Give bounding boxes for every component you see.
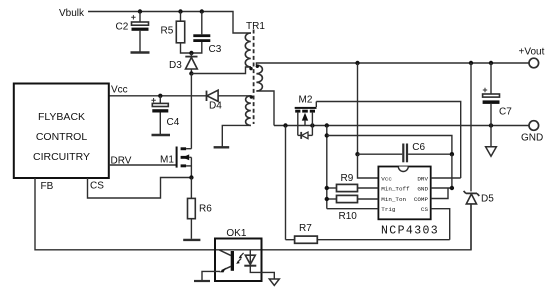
svg-text:Min_Toff: Min_Toff [381, 186, 410, 193]
svg-text:CIRCUITRY: CIRCUITRY [33, 151, 90, 163]
junction R7/drain rail [283, 123, 287, 127]
ground arrow (output GND) [486, 126, 497, 157]
wire drain node to M1 drain [190, 74, 192, 149]
svg-text:Vcc: Vcc [111, 85, 128, 96]
svg-text:R9: R9 [341, 173, 354, 184]
svg-text:Vcc: Vcc [381, 176, 392, 183]
resistor R9 [327, 173, 379, 192]
svg-text:GND: GND [521, 133, 543, 144]
resistor R6 [188, 178, 213, 239]
resistor R10 [327, 195, 379, 222]
svg-text:GND: GND [417, 186, 428, 193]
wire Vbulk rail to TR1 primary top [88, 12, 251, 34]
svg-text:CONTROL: CONTROL [36, 131, 87, 143]
svg-text:R7: R7 [299, 223, 312, 234]
ground (TR1 aux) [214, 146, 230, 148]
svg-text:C4: C4 [167, 117, 180, 128]
ground (C2) [131, 51, 150, 53]
wire M2 gate to DRV [316, 102, 460, 179]
svg-text:C7: C7 [499, 107, 512, 118]
ground (C4) [152, 134, 171, 136]
M2 body diode [298, 132, 313, 139]
OK1 phototransistor [202, 250, 234, 281]
junction GND pin / COMP [450, 186, 454, 190]
optocoupler OK1 [215, 228, 262, 281]
junction C7/GND rail [489, 123, 493, 127]
OK1 light arrows [236, 253, 243, 264]
svg-text:D4: D4 [209, 101, 222, 112]
svg-text:DRV: DRV [417, 176, 428, 183]
wire CS pin to R7 [431, 209, 450, 240]
diode D4 [207, 90, 223, 111]
wire FB to optocoupler [35, 178, 215, 250]
svg-text:OK1: OK1 [226, 228, 246, 239]
ground (OK1 emitter) [194, 280, 210, 282]
wire CS to M1 source [88, 178, 192, 199]
wire D4 anode to TR1 aux top [218, 95, 251, 97]
capacitor C2 [116, 12, 149, 53]
svg-text:CS: CS [421, 206, 429, 213]
wire C6 right to GND pin [451, 154, 453, 188]
TR1 primary winding [245, 33, 250, 67]
capacitor C4 [151, 96, 179, 135]
resistor R7 [286, 223, 450, 243]
svg-text:C6: C6 [412, 142, 425, 153]
junction C7/+Vout [489, 61, 493, 65]
svg-text:D5: D5 [481, 194, 494, 205]
diode D3 [169, 53, 198, 74]
resistor R5 [161, 12, 192, 54]
terminal GND [521, 121, 543, 144]
svg-text:M2: M2 [299, 94, 313, 105]
pin FB label [41, 181, 54, 192]
node Vcc label [111, 85, 128, 96]
svg-text:+Vout: +Vout [519, 47, 545, 58]
junction D5/+Vout [469, 61, 473, 65]
junction R10/GND vertical [325, 197, 329, 201]
svg-text:M1: M1 [160, 154, 174, 165]
wire Vcc pin [358, 154, 379, 178]
ground (R6) [183, 239, 200, 241]
svg-text:FLYBACK: FLYBACK [38, 111, 85, 123]
wire GND rail [274, 125, 529, 127]
junction R9/GND vertical [325, 186, 329, 190]
junction C3/Vbulk [200, 9, 204, 13]
flyback control circuitry block [14, 84, 109, 179]
svg-text:C3: C3 [209, 44, 222, 55]
svg-text:R5: R5 [161, 26, 174, 37]
wire Vcc: controller to D4 cathode [109, 95, 207, 97]
svg-text:D3: D3 [169, 60, 182, 71]
svg-text:COMP: COMP [414, 196, 429, 203]
junction GND-vertical/GND rail [325, 123, 329, 127]
transformer TR1 label [246, 21, 265, 32]
svg-text:Trig: Trig [381, 206, 396, 213]
TR1 auxiliary phase dot [250, 95, 253, 98]
OK1 LED [244, 250, 274, 279]
capacitor C6 [358, 142, 452, 163]
junction Vcc-line/+Vout [355, 61, 359, 65]
svg-text:Min_Ton: Min_Ton [381, 196, 406, 203]
wire drain node to TR1 primary bottom [191, 67, 251, 74]
junction clamp node (R5/C3/D3) [189, 51, 193, 55]
wire optocoupler anode to D5 anode [215, 204, 471, 250]
wire DRV pin [431, 177, 461, 179]
junction drain node (D3/TR1/M1) [189, 71, 193, 75]
junction C2/Vbulk [138, 9, 142, 13]
wire GND pin [431, 187, 452, 189]
wire GND vertical (R9/R10/Trig) [326, 126, 328, 209]
transformer TR1 core [253, 30, 255, 125]
wire DRV to M1 gate [109, 164, 177, 166]
svg-text:NCP4303: NCP4303 [381, 225, 439, 238]
svg-text:R10: R10 [339, 211, 358, 222]
ground arrow (OK1 LED cathode) [269, 279, 279, 285]
TR1 primary phase dot [249, 67, 252, 70]
svg-text:C2: C2 [116, 22, 129, 33]
wire R7 sense (drain rail to R7) [285, 126, 287, 240]
svg-text:Vbulk: Vbulk [59, 8, 85, 19]
junction R5/Vbulk [178, 9, 182, 13]
junction C4/Vcc [158, 94, 162, 98]
wire secondary bottom to GND rail [256, 91, 274, 126]
junction M1 source / CS / R6 [189, 175, 193, 179]
wire COMP pin to GND [431, 188, 448, 199]
svg-text:R6: R6 [199, 204, 212, 215]
IC U1 NCP4303 [378, 167, 430, 220]
wire TR1 aux bottom to ground [222, 125, 251, 147]
terminal +Vout [519, 47, 545, 68]
capacitor C7 [483, 63, 513, 126]
transistor M1 [160, 147, 191, 178]
wire GND branch to C6/GND pin [327, 136, 452, 155]
pin CS label [90, 181, 104, 192]
TR1 auxiliary winding [246, 96, 251, 126]
pin DRV label [111, 156, 132, 167]
svg-text:CS: CS [90, 181, 104, 192]
value label NCP4303 [381, 225, 439, 238]
junction GND branch [325, 133, 329, 137]
node Vbulk [59, 8, 85, 19]
junction C6 left / Vcc [355, 152, 359, 156]
capacitor C3 [191, 12, 221, 56]
TR1 secondary phase dot [256, 65, 259, 68]
svg-text:TR1: TR1 [246, 21, 265, 32]
wire Trig pin to GND vertical [327, 208, 379, 210]
junction C6 right / GND pin [450, 152, 454, 156]
wire Vcc line (+Vout to C6/Vcc pin) [357, 63, 359, 154]
svg-text:FB: FB [41, 181, 54, 192]
transistor M2 [295, 94, 317, 135]
TR1 secondary winding [256, 65, 262, 91]
zener diode D5 [464, 63, 495, 250]
wire secondary top to +Vout [256, 63, 529, 65]
junction M2 source/GND rail [310, 123, 314, 127]
